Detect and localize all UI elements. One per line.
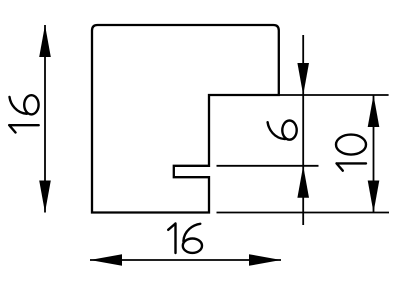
arrowhead 10 top (points up) xyxy=(368,95,380,127)
arrowhead 10 bottom (points down) xyxy=(368,181,380,213)
profile outline (frame moulding cross-section with rabbet step and notch) xyxy=(92,25,279,213)
extension line at notch top (y=165.8) xyxy=(217,165,319,167)
dimension line 6 vertical xyxy=(302,35,304,225)
arrowhead bottom-16 left (points left) xyxy=(90,254,122,266)
extension line at step top (y=95) xyxy=(279,94,389,96)
dimension line 16 bottom horizontal xyxy=(90,259,281,261)
arrowhead left-16 top xyxy=(39,25,51,57)
label 10 (rotated) xyxy=(336,135,366,171)
arrowhead 6 top (points down to step top) xyxy=(297,63,309,95)
extension line at bottom (y=212.5) xyxy=(217,212,390,214)
arrowhead bottom-16 right (points right) xyxy=(249,254,281,266)
label 6 (rotated) xyxy=(268,121,297,140)
dimension line 16 left vertical xyxy=(44,25,46,213)
arrowhead left-16 bottom xyxy=(39,181,51,213)
dimension line 10 right vertical xyxy=(373,95,375,213)
label 16 bottom xyxy=(168,224,202,254)
label 16 left (rotated) xyxy=(9,95,39,132)
arrowhead 6 bottom (points up to notch line) xyxy=(297,166,309,198)
